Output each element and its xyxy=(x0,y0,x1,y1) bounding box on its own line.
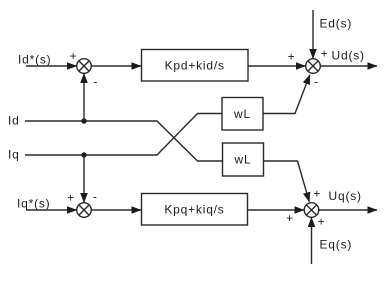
block wL lower xyxy=(223,143,264,176)
wire Ud(s) output xyxy=(320,65,377,67)
svg-text:+: + xyxy=(318,215,326,229)
wire Iq line crossing to upper wL xyxy=(25,114,222,156)
wire Id line crossing to lower wL xyxy=(25,121,223,161)
wire S3 to Kpq block xyxy=(91,209,141,211)
summing junction S4 xyxy=(304,203,319,218)
wire Id*(s) input to summing junction S1 xyxy=(26,65,77,67)
svg-text:+: + xyxy=(67,190,75,204)
wire S1 to Kpd block xyxy=(91,65,141,67)
svg-text:Eq(s): Eq(s) xyxy=(320,238,353,252)
svg-text:Id*(s): Id*(s) xyxy=(18,53,51,67)
wire Ed(s) input xyxy=(312,10,314,59)
svg-text:+: + xyxy=(313,187,321,201)
summing junction S2 xyxy=(306,59,321,74)
wire Id feedback to S1 xyxy=(83,74,85,122)
junction dot on Id line xyxy=(81,118,86,123)
block Kpd+kid/s xyxy=(142,50,249,82)
wire Iq*(s) input to S3 xyxy=(26,209,77,211)
svg-text:+: + xyxy=(286,211,294,225)
wire Kpd to summing junction S2 xyxy=(248,65,306,67)
wire upper wL to S2 xyxy=(263,75,310,114)
summing junction S1 xyxy=(77,59,92,74)
block Kpq+kiq/s xyxy=(142,194,248,226)
svg-text:wL: wL xyxy=(234,153,252,167)
junction dot on Iq line xyxy=(81,152,86,157)
wire Uq(s) output xyxy=(319,209,378,211)
svg-text:-: - xyxy=(93,190,98,204)
svg-text:Iq: Iq xyxy=(8,148,20,162)
svg-text:Iq*(s): Iq*(s) xyxy=(17,197,50,211)
wire Eq(s) input xyxy=(311,218,313,265)
wire Kpq to summing junction S4 xyxy=(248,209,305,211)
block wL upper xyxy=(222,98,263,131)
svg-text:Id: Id xyxy=(8,114,20,128)
svg-text:+: + xyxy=(70,49,78,63)
svg-text:+: + xyxy=(321,47,329,61)
svg-text:-: - xyxy=(93,75,98,89)
svg-text:Ud(s): Ud(s) xyxy=(332,49,365,63)
svg-text:-: - xyxy=(314,74,319,88)
svg-text:Ed(s): Ed(s) xyxy=(320,17,353,31)
svg-text:Kpd+kid/s: Kpd+kid/s xyxy=(165,59,225,73)
summing junction S3 xyxy=(77,203,92,218)
wire Iq feedback to S3 xyxy=(83,155,85,203)
svg-text:Kpq+kiq/s: Kpq+kiq/s xyxy=(164,203,224,217)
svg-text:Uq(s): Uq(s) xyxy=(329,189,362,203)
wire lower wL to S4 xyxy=(264,161,310,202)
svg-text:+: + xyxy=(288,50,296,64)
svg-text:wL: wL xyxy=(233,107,251,121)
